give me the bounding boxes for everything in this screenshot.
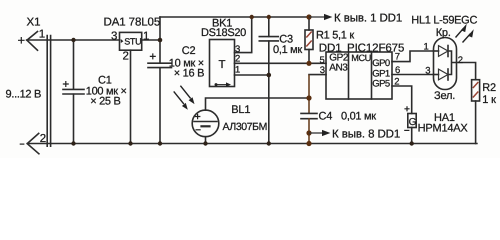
capacitor C2 plates xyxy=(148,63,172,67)
wire: C3 node to ground xyxy=(268,41,270,143)
connector X1 pin 1 arrow xyxy=(27,32,38,51)
minus sign BL1 xyxy=(196,129,201,131)
wire: C2 branch xyxy=(159,40,161,63)
wire: BK1 pin1 to C3 node xyxy=(235,74,269,76)
svg-text:1: 1 xyxy=(235,65,240,76)
wire: DA1 output xyxy=(142,39,160,41)
STU arrow mark xyxy=(121,39,124,43)
connector X1 label xyxy=(0,0,1,1)
svg-text:X1: X1 xyxy=(27,16,41,28)
svg-text:2: 2 xyxy=(394,76,399,87)
resistor R1 body xyxy=(305,30,313,50)
svg-text:HPM14AX: HPM14AX xyxy=(418,122,469,134)
plus sign X1 pin1 xyxy=(18,37,410,144)
wire: R1 top stub xyxy=(308,17,310,30)
svg-text:К выв. 8 DD1: К выв. 8 DD1 xyxy=(332,128,400,140)
svg-text:1: 1 xyxy=(143,31,149,43)
HL1 emission arrows xyxy=(456,24,474,43)
svg-text:6: 6 xyxy=(395,65,400,76)
plus sign C2 xyxy=(150,53,156,59)
HL1 green LED cathode bar xyxy=(447,69,449,80)
svg-text:9...12 В: 9...12 В xyxy=(6,89,42,101)
svg-text:GP0: GP0 xyxy=(372,58,390,69)
svg-text:T: T xyxy=(219,59,226,71)
svg-text:АЛ307БМ: АЛ307БМ xyxy=(223,121,267,133)
wire: R2 to ground xyxy=(475,101,477,144)
microcontroller DD1 box xyxy=(326,52,392,99)
svg-text:AN3: AN3 xyxy=(329,62,348,73)
DD1 internal divider right xyxy=(371,52,373,99)
wire: BK1 pin2 data line to DD1 pin5 xyxy=(235,62,327,64)
BL1 anode plate long xyxy=(194,121,217,123)
plus sign BL1 xyxy=(195,114,201,120)
svg-text:7: 7 xyxy=(395,52,400,63)
svg-text:2: 2 xyxy=(458,55,463,66)
svg-text:MCU: MCU xyxy=(351,53,371,63)
HL1 green LED anode wire inside xyxy=(434,74,439,76)
svg-text:1: 1 xyxy=(424,41,429,52)
minus sign X1 pin2 xyxy=(20,143,25,145)
ground rail wire xyxy=(28,143,477,145)
plus sign HA1 xyxy=(404,106,409,111)
svg-text:0,1 мк: 0,1 мк xyxy=(273,44,302,56)
svg-text:DA1 78L05: DA1 78L05 xyxy=(104,17,161,29)
wire: BL1 to ground xyxy=(205,137,207,144)
DD1 internal divider left xyxy=(348,52,350,99)
BK1 sensor arrowhead and dot xyxy=(215,82,232,86)
BL1 cathode plate short xyxy=(202,125,210,127)
svg-text:2: 2 xyxy=(123,50,129,62)
svg-text:Кр.: Кр. xyxy=(436,27,451,39)
HL1 internal common wire to pin2 xyxy=(448,51,457,75)
wire: DD1 pin7 to HL1 pin1 xyxy=(392,51,434,62)
svg-text:R2: R2 xyxy=(482,82,496,94)
svg-text:DS18S20: DS18S20 xyxy=(201,27,246,39)
photodiode BL1 circle xyxy=(192,110,219,137)
wire: HA1 to ground xyxy=(411,128,413,144)
svg-text:× 16 В: × 16 В xyxy=(174,67,204,79)
svg-text:3: 3 xyxy=(111,31,117,43)
wire: BL1 anode up and to AN3 node xyxy=(206,98,310,110)
wire: C3 from rail xyxy=(268,17,270,36)
wire: X1 pin1 to DA1 input xyxy=(27,39,120,41)
connector X1 boundary double line xyxy=(47,36,50,147)
svg-text:STU: STU xyxy=(124,36,141,46)
svg-text:2: 2 xyxy=(235,53,240,64)
HL1 red LED anode wire inside xyxy=(434,50,439,52)
BL1 incident light arrows xyxy=(174,86,195,110)
svg-text:C4: C4 xyxy=(319,110,333,122)
svg-text:3: 3 xyxy=(320,65,325,76)
wire: C4 bottom to ground xyxy=(308,119,310,144)
+5V top rail wire xyxy=(160,16,309,18)
wire: DD1 pin2 to HA1 xyxy=(392,86,412,114)
arrow to DD1 pin 8 (K vyv. 8 DD1) xyxy=(309,132,323,134)
wire: AN3 vertical to C4 (brown tinted) xyxy=(308,75,310,113)
LED package HL1 stadium outline xyxy=(434,38,457,90)
wire: C1 to ground xyxy=(73,94,75,143)
svg-text:C2: C2 xyxy=(182,45,196,57)
HL1 green LED triangle xyxy=(439,69,449,80)
svg-text:1 к: 1 к xyxy=(482,94,496,106)
wire: R1 bottom stub xyxy=(308,50,310,64)
svg-text:G: G xyxy=(409,117,417,128)
resistor R1 power slashes xyxy=(306,32,478,98)
svg-text:3: 3 xyxy=(425,65,430,76)
wire: DD1 pin6 to HL1 pin3 xyxy=(392,74,434,76)
svg-text:C1: C1 xyxy=(98,74,112,86)
svg-text:Зел.: Зел. xyxy=(434,90,455,102)
svg-text:2: 2 xyxy=(40,133,46,145)
svg-text:BL1: BL1 xyxy=(231,104,250,116)
wire: BK1 pin3 to rail xyxy=(235,17,252,53)
HL1 red LED triangle xyxy=(439,46,449,57)
wire: DA1 pin2 to ground xyxy=(130,50,132,143)
wire: C1 branch down xyxy=(73,40,75,89)
svg-text:× 25 В: × 25 В xyxy=(90,96,120,108)
svg-text:0,01 мк: 0,01 мк xyxy=(341,110,376,122)
voltage regulator DA1 box xyxy=(120,32,142,50)
resistor R2 power slashes xyxy=(473,82,478,98)
capacitor C4 plates xyxy=(301,113,317,118)
wire: HL1 pin2 to R2 xyxy=(457,63,476,80)
arrow to DD1 pin 1 (K vyv. 1 DD1) xyxy=(309,14,332,136)
svg-text:1: 1 xyxy=(39,28,45,40)
plus sign C1 xyxy=(63,81,69,87)
BK1 sensor arrow inside xyxy=(216,84,227,86)
svg-text:R1 5,1 к: R1 5,1 к xyxy=(316,30,354,42)
svg-text:HL1 L-59EGC: HL1 L-59EGC xyxy=(411,14,477,26)
minus sign HA1 xyxy=(404,129,409,131)
wire: DD1 AN3 pin to sensor node xyxy=(309,74,326,76)
HL1 red LED cathode bar xyxy=(447,46,449,57)
wire: C2 to ground xyxy=(159,68,161,144)
connector X1 pin 2 arrow xyxy=(27,133,39,153)
svg-text:GP5: GP5 xyxy=(372,79,390,90)
wire: riser to +5V rail xyxy=(159,17,161,40)
capacitor C1 plates xyxy=(63,89,84,94)
temperature sensor BK1 box xyxy=(210,40,235,87)
sound emitter HA1 box xyxy=(408,114,416,128)
svg-text:К выв. 1 DD1: К выв. 1 DD1 xyxy=(334,12,402,24)
resistor R2 body xyxy=(472,80,480,101)
capacitor C3 plates xyxy=(259,37,278,41)
